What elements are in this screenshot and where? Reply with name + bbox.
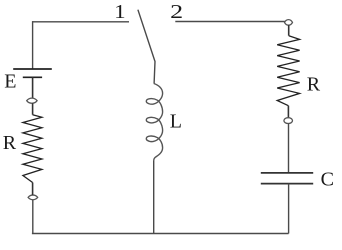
wire capacitor to bottom rail bbox=[288, 184, 290, 234]
wire resistor to node bbox=[287, 106, 289, 118]
battery E short plate bbox=[23, 76, 42, 78]
node ellipse lower-left bbox=[28, 195, 38, 200]
wire node to resistor R1 bbox=[32, 103, 34, 114]
node ellipse top-right bbox=[285, 20, 293, 26]
svg-text:C: C bbox=[321, 168, 334, 190]
capacitor C top plate bbox=[261, 172, 313, 174]
switch arm bbox=[138, 10, 155, 84]
inductor L coil bbox=[146, 84, 162, 162]
node ellipse upper-left bbox=[27, 98, 37, 103]
wire top-left (node 1 feed) bbox=[33, 21, 129, 23]
wire left vertical to battery bbox=[32, 21, 34, 69]
wire top-right (node 2 feed) bbox=[175, 21, 285, 23]
svg-text:2: 2 bbox=[170, 1, 183, 23]
svg-text:1: 1 bbox=[114, 1, 126, 23]
wire node to resistor R2 bbox=[288, 25, 290, 36]
wire battery to node bbox=[32, 77, 34, 98]
resistor R1 zigzag bbox=[23, 115, 42, 183]
svg-text:R: R bbox=[307, 74, 321, 96]
resistor R2 zigzag bbox=[277, 36, 299, 106]
wire inductor to bottom rail bbox=[153, 161, 155, 234]
svg-text:R: R bbox=[3, 132, 17, 154]
wire node to bottom rail bbox=[32, 200, 34, 234]
capacitor C bottom plate bbox=[261, 183, 313, 185]
wire resistor to node bbox=[32, 183, 34, 196]
battery E long plate bbox=[13, 68, 52, 70]
svg-text:L: L bbox=[170, 111, 182, 133]
bottom rail wire bbox=[32, 233, 289, 235]
wire node to capacitor bbox=[288, 124, 290, 173]
node ellipse mid-right bbox=[284, 118, 293, 124]
svg-text:E: E bbox=[4, 71, 16, 93]
